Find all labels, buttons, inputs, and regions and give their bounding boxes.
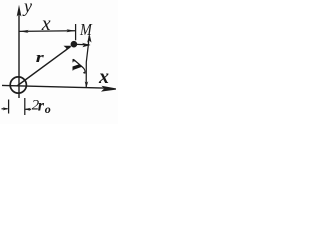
x dim right arrowhead bbox=[67, 29, 76, 32]
leader arrowhead bbox=[82, 43, 91, 48]
svg-text:y: y bbox=[22, 0, 32, 16]
svg-text:y: y bbox=[66, 58, 87, 74]
svg-text:r: r bbox=[38, 97, 45, 114]
2r0 dimension: right extension line bbox=[24, 98, 26, 115]
svg-text:r: r bbox=[36, 50, 44, 66]
2r0 left arrow bbox=[2, 108, 8, 110]
vector r bbox=[17, 47, 70, 86]
y dim top arrowhead bbox=[87, 34, 91, 43]
x dimension line (top) bbox=[20, 30, 76, 33]
x dim left arrowhead bbox=[20, 30, 29, 33]
svg-text:M: M bbox=[79, 20, 93, 39]
x-axis arrowhead bbox=[101, 86, 116, 92]
vector r arrowhead bbox=[64, 46, 72, 52]
svg-text:x: x bbox=[98, 66, 109, 88]
circle radius r0 at origin bbox=[10, 77, 26, 93]
y dim bottom arrowhead bbox=[85, 81, 89, 88]
leader from M to y-dimension bbox=[77, 43, 90, 46]
y-axis arrowhead bbox=[17, 5, 22, 17]
2r0 right arrow bbox=[25, 108, 31, 110]
x-axis bbox=[2, 85, 104, 88]
point M dot bbox=[71, 41, 78, 48]
2r0 dimension: left extension line bbox=[8, 100, 10, 114]
extension tick above M bbox=[75, 24, 77, 40]
y-axis bbox=[18, 13, 20, 98]
svg-text:x: x bbox=[41, 13, 51, 35]
svg-text:o: o bbox=[45, 102, 51, 116]
y dimension line (vertical) bbox=[86, 36, 89, 88]
